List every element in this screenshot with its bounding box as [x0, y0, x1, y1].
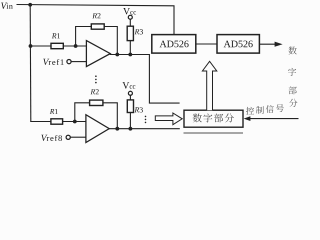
resistor R3 (ch8) [127, 100, 143, 113]
net label Vcc ch8 [122, 82, 129, 89]
wire R3 to output ch1 [129, 41, 131, 55]
resistor R1 (ch8) [50, 109, 63, 124]
op-amp U8 [86, 115, 109, 143]
bus arrow into digital section [155, 113, 182, 125]
node inverting input ch8 [73, 120, 77, 124]
resistor R1 (ch1) [51, 33, 63, 48]
wire AD526-1 to AD526-2 [196, 43, 217, 45]
wire op-amp output ch8 [109, 128, 180, 130]
op-amp U1 [86, 41, 110, 67]
resistor R3 (ch1) [127, 26, 143, 40]
junction dot output-R2 ch1 [115, 53, 119, 57]
wire trunk to op-amp input ch1 [31, 45, 87, 47]
terminal Vref8 [66, 135, 70, 139]
wire bus stub under digital section [184, 132, 244, 134]
terminal Vcc ch8 [128, 91, 132, 95]
amplifier block AD526 #2 [217, 35, 259, 54]
terminal Vcc ch1 [128, 15, 132, 19]
junction dot Vin rail [28, 3, 32, 7]
junction dot output-R3 ch1 [128, 53, 132, 57]
label 控制信号 control signal [246, 104, 284, 114]
label 数字部分 right column [288, 46, 297, 106]
wire Vcc to R3 ch1 [129, 19, 131, 26]
resistor R2 (ch8) [90, 89, 103, 105]
net label Vin [1, 3, 7, 9]
net label Vref1 [43, 59, 49, 65]
net label Vref8 [41, 135, 47, 141]
amplifier block AD526 #1 [152, 35, 196, 54]
ellipsis channel outputs [145, 116, 147, 124]
junction dot output-R3 ch8 [129, 127, 133, 131]
wire AD526-2 output arrow [259, 42, 282, 47]
wire op-amp output ch1 [110, 55, 180, 104]
bus arrow up to AD526 gain control [202, 61, 216, 110]
net label Vcc ch1 [123, 8, 130, 15]
wire Vin vertical trunk [29, 5, 32, 122]
wire R3 to output ch8 [129, 113, 131, 129]
wire feedback loop ch1 [76, 27, 118, 55]
wire feedback loop ch8 [75, 103, 118, 129]
wire trunk to op-amp input ch8 [31, 120, 86, 123]
node inverting input ch1 [74, 44, 78, 48]
wire Vref8 to op-amp [70, 136, 86, 138]
junction dot trunk to R1 ch1 [29, 44, 33, 48]
wire Vcc to R3 ch8 [129, 95, 131, 100]
junction dot output-R2 ch8 [115, 127, 119, 131]
wire Vref1 to op-amp [71, 61, 86, 63]
resistor R2 (ch1) [91, 13, 104, 29]
terminal Vref1 [67, 60, 71, 64]
wire control signal arrow [244, 116, 299, 121]
ellipsis between channels [95, 75, 97, 83]
block 数字部分 digital section [184, 110, 243, 127]
wire Vin top rail [17, 5, 175, 35]
